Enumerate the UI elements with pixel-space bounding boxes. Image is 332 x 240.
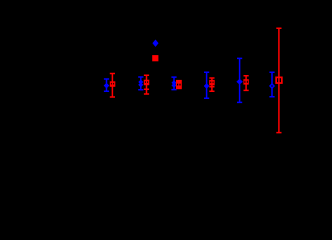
C4 blue diamond marker xyxy=(204,83,209,88)
C6 blue diamond marker xyxy=(269,83,275,89)
C2 red error bar xyxy=(144,75,149,94)
C4 blue error bar xyxy=(204,72,209,98)
C5 blue diamond marker xyxy=(237,79,243,84)
C5 red square marker xyxy=(243,79,248,84)
C6 blue error bar xyxy=(269,72,274,97)
C1 red square marker xyxy=(110,81,116,87)
C5 red error bar xyxy=(244,76,249,91)
C2 red square marker xyxy=(144,80,150,86)
C3 blue diamond markers (two overlapping) xyxy=(172,80,177,87)
C6 red error bar (very long) xyxy=(276,28,281,132)
C4 red square marker xyxy=(209,80,215,86)
C6 red hollow square marker xyxy=(276,77,282,83)
C5 blue error bar xyxy=(237,58,242,102)
C2 blue error bar xyxy=(138,77,143,90)
legend marker blue diamond xyxy=(153,40,158,46)
C1 red error bar xyxy=(110,74,115,98)
C1 blue diamond marker xyxy=(104,83,109,88)
legend marker red square xyxy=(152,55,158,61)
C3 blue error bar xyxy=(171,77,176,90)
C1 blue error bar xyxy=(104,79,109,91)
C4 red error bar xyxy=(209,78,214,91)
C2 blue diamond markers (two overlapping) xyxy=(139,80,144,87)
C3 red block (short error bar + hollow square marker) xyxy=(176,80,182,89)
